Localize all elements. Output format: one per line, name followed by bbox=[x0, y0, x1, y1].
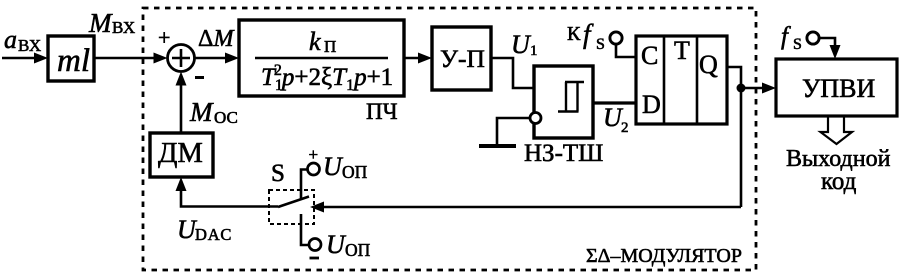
wire DM up to summer bbox=[180, 77, 183, 133]
wire PCh to U-P bbox=[404, 57, 426, 60]
svg-text:D: D bbox=[642, 90, 661, 119]
wire input bbox=[2, 57, 42, 60]
block NZ-TSh bbox=[534, 66, 593, 138]
svg-text:К: К bbox=[567, 23, 581, 45]
svg-text:ДМ: ДМ bbox=[158, 138, 203, 169]
summer circle bbox=[168, 45, 195, 72]
flip-flop divider 1 bbox=[663, 36, 666, 124]
wire switch lower contact bbox=[301, 214, 308, 245]
arrowhead M_OC up into summer bbox=[176, 72, 187, 86]
block U-P bbox=[432, 27, 491, 90]
svg-text:M: M bbox=[88, 8, 113, 38]
svg-text:+: + bbox=[309, 145, 319, 164]
output hollow arrow bbox=[821, 117, 853, 144]
svg-text:ОП: ОП bbox=[342, 162, 368, 182]
arrowhead input into ml bbox=[34, 53, 48, 64]
svg-text:ОС: ОС bbox=[214, 108, 238, 127]
arrowhead feedback left into switch bbox=[310, 202, 324, 213]
wire junction to UPVI bbox=[741, 87, 767, 90]
arrowhead fS down into UPVI bbox=[830, 45, 841, 59]
svg-text:U: U bbox=[323, 152, 344, 181]
ground symbol bbox=[479, 144, 516, 148]
svg-text:П: П bbox=[324, 37, 336, 56]
junction dot Q feedback bbox=[737, 84, 746, 93]
terminal KfS bbox=[610, 32, 622, 44]
svg-text:S: S bbox=[271, 160, 285, 187]
svg-text:1: 1 bbox=[530, 43, 538, 59]
svg-text:ΣΔ–МОДУЛЯТОР: ΣΔ–МОДУЛЯТОР bbox=[586, 245, 742, 267]
svg-text:У-П: У-П bbox=[440, 44, 485, 73]
svg-text:код: код bbox=[821, 168, 857, 195]
wire ground stub bbox=[497, 118, 530, 144]
block DM bbox=[150, 133, 213, 177]
minus sign below lower U_OP bbox=[310, 257, 320, 260]
fraction line in PCh bbox=[255, 57, 388, 60]
wire summer to PCh bbox=[195, 57, 234, 60]
terminal U_OP plus bbox=[308, 163, 320, 175]
summer plus cross bbox=[172, 49, 190, 67]
svg-text:ВХ: ВХ bbox=[18, 36, 41, 55]
wire feedback to switch bbox=[319, 206, 741, 209]
wire switch upper contact bbox=[301, 170, 307, 200]
wire bottom to DM bbox=[181, 183, 278, 207]
wire ml to summer bbox=[94, 57, 161, 60]
arrowhead up into DM bbox=[176, 177, 187, 191]
svg-text:DAC: DAC bbox=[195, 225, 232, 244]
svg-text:Q: Q bbox=[699, 50, 718, 79]
wire NZ-TSh output to D bbox=[594, 101, 636, 104]
wire Q output bbox=[727, 67, 741, 207]
svg-text:ml: ml bbox=[57, 43, 90, 79]
flip-flop divider 2 bbox=[696, 36, 699, 124]
wire U-P to NZ-TSh bbox=[490, 58, 534, 88]
svg-text:a: a bbox=[4, 25, 17, 54]
svg-text:T12p+2ξT1p+1: T12p+2ξT1p+1 bbox=[261, 62, 393, 94]
block flip-flop bbox=[636, 36, 727, 124]
svg-text:S: S bbox=[793, 36, 802, 53]
minus sign at summer bbox=[195, 76, 204, 79]
arrowhead into summer bbox=[154, 53, 168, 64]
svg-text:+: + bbox=[158, 25, 170, 50]
block ml bbox=[48, 36, 94, 81]
svg-text:U: U bbox=[511, 30, 532, 59]
svg-text:УПВИ: УПВИ bbox=[802, 74, 876, 103]
switch dashed box bbox=[269, 190, 314, 224]
wire fS to UPVI top bbox=[820, 38, 835, 51]
block UPVI bbox=[776, 59, 897, 116]
block PCh transfer function bbox=[239, 20, 404, 96]
wire KfS to C bbox=[616, 45, 636, 57]
svg-text:ΔM: ΔM bbox=[198, 26, 235, 52]
svg-text:C: C bbox=[641, 41, 658, 70]
arrowhead into PCh bbox=[225, 53, 239, 64]
svg-text:S: S bbox=[596, 36, 605, 53]
switch blade bbox=[278, 197, 309, 208]
dashed modulator border bbox=[143, 8, 756, 270]
svg-text:ПЧ: ПЧ bbox=[366, 99, 398, 124]
arrowhead into U-P bbox=[418, 53, 432, 64]
hysteresis symbol bbox=[558, 82, 584, 112]
svg-text:ОП: ОП bbox=[345, 240, 371, 260]
svg-text:M: M bbox=[189, 97, 214, 127]
arrowhead into UPVI bbox=[762, 83, 776, 94]
inverting input circle NZ-TSh bbox=[530, 113, 541, 124]
svg-text:U: U bbox=[326, 230, 347, 259]
terminal fS bbox=[807, 32, 819, 44]
svg-text:ВХ: ВХ bbox=[112, 18, 135, 37]
terminal U_OP minus bbox=[309, 239, 321, 251]
svg-text:2: 2 bbox=[621, 120, 629, 136]
svg-text:НЗ-ТШ: НЗ-ТШ bbox=[524, 140, 603, 167]
svg-text:k: k bbox=[309, 27, 321, 56]
svg-text:T: T bbox=[674, 36, 690, 65]
